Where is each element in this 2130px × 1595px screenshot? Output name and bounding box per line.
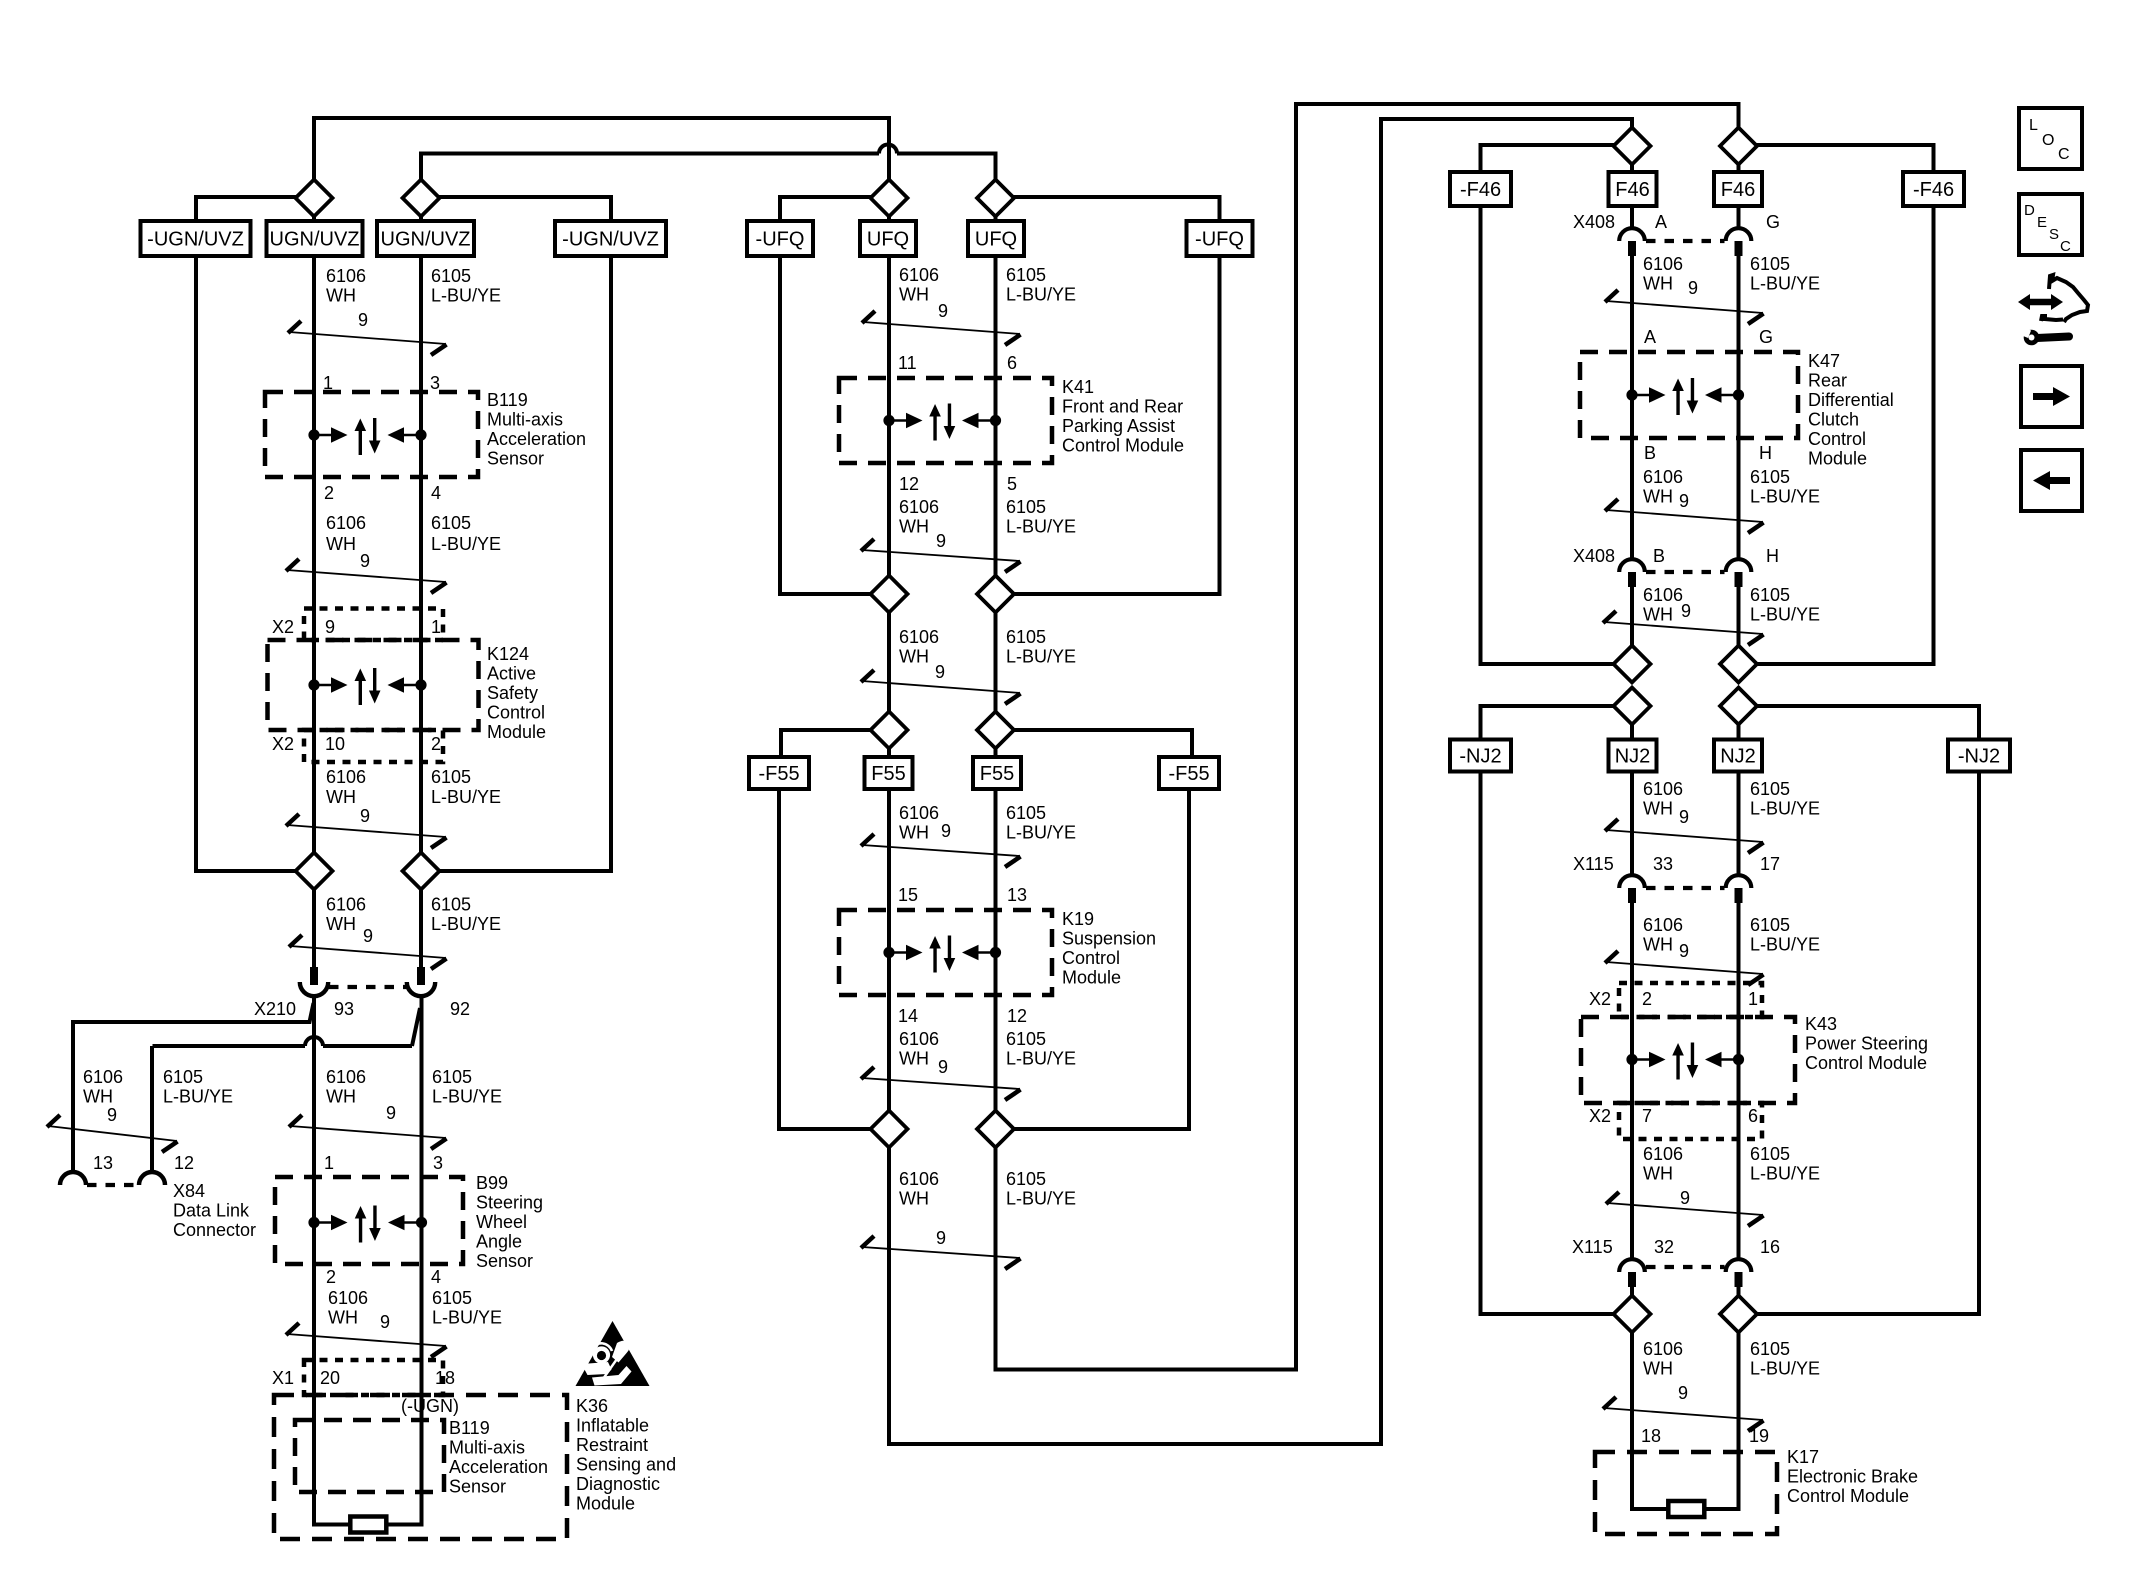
svg-text:12: 12 xyxy=(899,474,919,494)
loop wire -F46 left to diamond xyxy=(1481,206,1616,664)
svg-text:Module: Module xyxy=(487,722,546,742)
svg-text:K124: K124 xyxy=(487,644,529,664)
svg-text:A: A xyxy=(1655,212,1667,232)
svg-text:X84: X84 xyxy=(173,1181,205,1201)
svg-text:Control: Control xyxy=(1808,429,1866,449)
svg-text:L-BU/YE: L-BU/YE xyxy=(1750,487,1820,507)
K47 module arrows symbol xyxy=(1626,389,1637,400)
X115 mating dashed line xyxy=(1646,886,1725,890)
svg-text:WH: WH xyxy=(899,517,929,537)
svg-text:17: 17 xyxy=(1760,854,1780,874)
svg-text:Data Link: Data Link xyxy=(173,1201,250,1221)
svg-text:6105: 6105 xyxy=(1006,265,1046,285)
wire X115 to K43 6106 xyxy=(1630,903,1634,985)
svg-text:L-BU/YE: L-BU/YE xyxy=(1006,517,1076,537)
junction diamond 6106 (right bottom) xyxy=(1614,1296,1651,1333)
svg-text:9: 9 xyxy=(1679,941,1689,961)
svg-text:L-BU/YE: L-BU/YE xyxy=(1750,1359,1820,1379)
net tag -UFQ left xyxy=(747,221,813,256)
wire NJ2 to X115 6105 xyxy=(1737,771,1741,875)
svg-text:X115: X115 xyxy=(1573,854,1614,874)
inline connector X115 pin 17 xyxy=(1726,875,1752,888)
svg-text:2: 2 xyxy=(326,1267,336,1287)
net tag NJ2 6105 xyxy=(1714,740,1762,772)
svg-text:Module: Module xyxy=(1062,968,1121,988)
wire X115-2 to diamond 6106 xyxy=(1630,1287,1634,1297)
DESC legend box xyxy=(2019,194,2082,255)
svg-text:Sensor: Sensor xyxy=(487,449,544,469)
svg-text:X2: X2 xyxy=(272,734,294,754)
svg-text:K47: K47 xyxy=(1808,351,1840,371)
svg-text:6106: 6106 xyxy=(899,803,939,823)
svg-text:-F55: -F55 xyxy=(1168,763,1209,785)
connector X2 dotted box (top of K124) xyxy=(304,609,443,641)
svg-text:18: 18 xyxy=(1641,1426,1661,1446)
svg-text:Control Module: Control Module xyxy=(1062,436,1184,456)
svg-text:9: 9 xyxy=(938,301,948,321)
connector X1 dotted box xyxy=(304,1360,443,1395)
twist symbol xyxy=(287,1334,446,1346)
svg-text:9: 9 xyxy=(936,531,946,551)
wire X408-B to diamonds 6106 xyxy=(1630,587,1634,647)
svg-text:L-BU/YE: L-BU/YE xyxy=(1750,799,1820,819)
sensor B119 dashed box xyxy=(265,392,478,477)
svg-text:20: 20 xyxy=(320,1368,340,1388)
sensor B99 dashed box xyxy=(275,1177,463,1264)
svg-text:6105: 6105 xyxy=(1750,467,1790,487)
svg-text:9: 9 xyxy=(1678,1383,1688,1403)
svg-text:12: 12 xyxy=(1007,1006,1027,1026)
svg-text:2: 2 xyxy=(431,734,441,754)
svg-text:Differential: Differential xyxy=(1808,390,1894,410)
svg-text:L-BU/YE: L-BU/YE xyxy=(1006,1189,1076,1209)
svg-text:UGN/UVZ: UGN/UVZ xyxy=(381,229,471,251)
wire through B119 6106 xyxy=(312,394,316,608)
svg-text:-NJ2: -NJ2 xyxy=(1958,746,2000,768)
svg-text:L-BU/YE: L-BU/YE xyxy=(1006,285,1076,305)
svg-text:C: C xyxy=(2060,238,2071,255)
junction diamond 6106 (left top) xyxy=(296,180,333,217)
connector X84 hook pin 13 xyxy=(60,1172,86,1185)
svg-text:X2: X2 xyxy=(272,617,294,637)
svg-text:F55: F55 xyxy=(871,763,905,785)
svg-text:-F46: -F46 xyxy=(1913,179,1954,201)
wire 6106 between diamonds xyxy=(887,611,891,713)
module K17 dashed box xyxy=(1595,1452,1777,1534)
svg-text:-F55: -F55 xyxy=(758,763,799,785)
svg-text:1: 1 xyxy=(1748,989,1758,1009)
wire through B119 6105 xyxy=(419,394,423,608)
wire 6106 vertical to diamond (right top) xyxy=(1630,117,1634,129)
loop wire -UFQ left to diamond xyxy=(780,256,872,594)
svg-text:6105: 6105 xyxy=(432,1288,472,1308)
svg-text:12: 12 xyxy=(174,1153,194,1173)
svg-text:6106: 6106 xyxy=(328,1288,368,1308)
svg-text:4: 4 xyxy=(431,483,441,503)
svg-text:Angle: Angle xyxy=(476,1232,522,1252)
module K47 dashed box xyxy=(1580,352,1798,438)
svg-text:Restraint: Restraint xyxy=(576,1435,648,1455)
svg-text:WH: WH xyxy=(83,1087,113,1107)
wire X408 to K47 region 6106 xyxy=(1630,256,1634,560)
wire 6106 below UFQ xyxy=(887,256,891,578)
svg-text:Control Module: Control Module xyxy=(1805,1053,1927,1073)
wire 6105 L-BU/YE vertical above diamond xyxy=(419,152,423,182)
wire through K124 6106 xyxy=(312,608,316,766)
net tag F46 6105 xyxy=(1714,172,1762,206)
svg-text:Acceleration: Acceleration xyxy=(487,429,586,449)
net tag F46 6106 xyxy=(1609,172,1657,206)
outer loop wire from -UGN/UVZ right xyxy=(438,256,611,871)
wire 6105 to diamond xyxy=(994,747,998,757)
wrench icon xyxy=(2037,337,2069,339)
twist symbol xyxy=(290,946,446,958)
svg-text:3: 3 xyxy=(430,373,440,393)
svg-text:UFQ: UFQ xyxy=(975,229,1017,251)
wire 6106 into K36 xyxy=(314,1362,351,1525)
twist symbol xyxy=(1606,301,1763,313)
svg-text:11: 11 xyxy=(898,353,917,373)
svg-text:L-BU/YE: L-BU/YE xyxy=(1750,605,1820,625)
module K41 dashed box xyxy=(839,378,1052,463)
wire X115 to K43 6105 xyxy=(1737,903,1741,985)
inline connector X408 pin A xyxy=(1619,228,1645,241)
junction diamond 6105 (right top) xyxy=(1720,128,1757,165)
svg-text:WH: WH xyxy=(1643,487,1673,507)
K19 module arrows symbol xyxy=(883,947,894,958)
branch wire to -F46 right xyxy=(1756,145,1934,171)
twist symbol xyxy=(1606,962,1763,974)
inline connector X210 pin 92 xyxy=(417,967,425,985)
svg-text:L-BU/YE: L-BU/YE xyxy=(1750,935,1820,955)
svg-text:Multi-axis: Multi-axis xyxy=(449,1438,525,1458)
svg-text:16: 16 xyxy=(1760,1237,1780,1257)
svg-text:Electronic Brake: Electronic Brake xyxy=(1787,1467,1918,1487)
wire through B99 6106 xyxy=(312,1180,316,1362)
X115 mating dashed line (second) xyxy=(1646,1265,1725,1269)
twist symbol xyxy=(289,332,446,344)
net tag F55 6106 xyxy=(865,757,913,789)
K43 module arrows symbol xyxy=(1626,1054,1637,1065)
svg-text:Power Steering: Power Steering xyxy=(1805,1034,1928,1054)
svg-text:9: 9 xyxy=(107,1105,117,1125)
svg-text:14: 14 xyxy=(898,1006,918,1026)
svg-text:WH: WH xyxy=(899,647,929,667)
svg-text:6106: 6106 xyxy=(326,895,366,915)
wire 6105 routed to right column (inner L path) xyxy=(996,104,1739,1370)
junction diamond 6106 (right, F46 loop) xyxy=(1614,646,1651,683)
svg-text:6106: 6106 xyxy=(899,627,939,647)
svg-text:6105: 6105 xyxy=(1750,915,1790,935)
wire 6106 below F55 xyxy=(887,789,891,1112)
svg-text:6105: 6105 xyxy=(431,895,471,915)
B99 module arrows symbol xyxy=(308,1217,319,1228)
svg-text:Steering: Steering xyxy=(476,1193,543,1213)
wire 6106 below K124 xyxy=(312,762,316,854)
svg-text:6105: 6105 xyxy=(1750,585,1790,605)
svg-text:WH: WH xyxy=(1643,605,1673,625)
junction diamond 6105 (middle top) xyxy=(977,180,1014,217)
svg-text:WH: WH xyxy=(326,1087,356,1107)
wire 6105 between diamonds xyxy=(994,611,998,713)
wire 6106 routed to right column (bottom-left L path) xyxy=(889,119,1632,1444)
svg-text:K41: K41 xyxy=(1062,377,1094,397)
svg-text:Sensing and: Sensing and xyxy=(576,1455,676,1475)
svg-text:(-UGN): (-UGN) xyxy=(401,1396,459,1416)
svg-text:9: 9 xyxy=(1679,491,1689,511)
twist symbol xyxy=(862,1078,1020,1089)
wire 6106 X210 to B99 xyxy=(312,998,316,1180)
svg-text:6105: 6105 xyxy=(1006,1029,1046,1049)
junction diamond 6106 (middle top) xyxy=(871,180,908,217)
svg-text:L-BU/YE: L-BU/YE xyxy=(431,286,501,306)
svg-text:6106: 6106 xyxy=(326,767,366,787)
inline connector X408 pin H xyxy=(1726,559,1752,572)
net tag -F46 left xyxy=(1450,172,1511,206)
branch wire to -F55 right xyxy=(1013,730,1192,757)
svg-text:UFQ: UFQ xyxy=(867,229,909,251)
twist symbol xyxy=(862,845,1020,856)
wire diamond to NJ2 box xyxy=(1630,723,1634,741)
svg-text:6106: 6106 xyxy=(1643,467,1683,487)
next-page arrow box (right arrow) xyxy=(2021,366,2082,427)
svg-text:L-BU/YE: L-BU/YE xyxy=(1750,1164,1820,1184)
svg-text:O: O xyxy=(2042,132,2054,149)
wire 6105 L-BU/YE (box to B119) xyxy=(419,256,423,394)
net tag -UGN/UVZ left xyxy=(141,221,251,256)
net tag UGN/UVZ 6106 xyxy=(267,221,363,256)
svg-text:6105: 6105 xyxy=(1750,1339,1790,1359)
K17 termination resistor xyxy=(1668,1501,1704,1517)
svg-text:6106: 6106 xyxy=(326,1067,366,1087)
wire 6105 below diamond to X210 xyxy=(419,888,423,969)
junction diamond 6106 (right, NJ2 row) xyxy=(1614,688,1651,725)
svg-text:K19: K19 xyxy=(1062,909,1094,929)
net tag -NJ2 right xyxy=(1948,740,2010,772)
svg-text:Module: Module xyxy=(1808,449,1867,469)
svg-text:9: 9 xyxy=(941,821,951,841)
svg-text:X408: X408 xyxy=(1573,212,1615,232)
svg-text:K36: K36 xyxy=(576,1396,608,1416)
svg-text:Sensor: Sensor xyxy=(449,1477,506,1497)
net tag -UGN/UVZ right xyxy=(555,221,666,256)
svg-text:L-BU/YE: L-BU/YE xyxy=(431,787,501,807)
K124 module arrows symbol xyxy=(308,679,319,690)
svg-text:9: 9 xyxy=(1681,601,1691,621)
branch wire to -UGN/UVZ left xyxy=(196,197,297,222)
svg-text:6106: 6106 xyxy=(1643,585,1683,605)
svg-text:33: 33 xyxy=(1653,854,1673,874)
wire through B99 6105 xyxy=(420,1180,424,1362)
svg-text:13: 13 xyxy=(1007,885,1027,905)
inline connector X115 pin 32 xyxy=(1619,1259,1645,1272)
wire 6105 vertical to diamond (right top) xyxy=(1737,102,1741,129)
wire 6106 WH vertical above diamond xyxy=(312,116,316,181)
wire to UGN/UVZ box xyxy=(312,215,316,224)
svg-text:6105: 6105 xyxy=(1750,254,1790,274)
svg-text:WH: WH xyxy=(899,285,929,305)
net tag -NJ2 left xyxy=(1450,740,1511,772)
svg-text:9: 9 xyxy=(380,1312,390,1332)
svg-text:L-BU/YE: L-BU/YE xyxy=(1006,647,1076,667)
prev-page arrow box (left arrow) xyxy=(2021,450,2082,511)
wire through K43 6106 xyxy=(1630,983,1634,1139)
svg-text:6106: 6106 xyxy=(1643,779,1683,799)
svg-text:L-BU/YE: L-BU/YE xyxy=(431,914,501,934)
car direction icon with double arrow xyxy=(2027,299,2054,306)
wire to UFQ box 2 xyxy=(994,215,998,224)
X408 mating dashed line xyxy=(1646,239,1725,243)
svg-text:6105: 6105 xyxy=(432,1067,472,1087)
twist symbol xyxy=(1606,830,1763,842)
svg-text:9: 9 xyxy=(325,617,335,637)
net tag UFQ 6106 xyxy=(860,221,916,256)
inline connector X408 pin B xyxy=(1619,559,1645,572)
tap wire 6106 to X84 pin 13 xyxy=(73,1003,314,1172)
branch wire to -UFQ right xyxy=(1013,197,1220,222)
svg-text:Wheel: Wheel xyxy=(476,1212,527,1232)
twist symbol (X84 taps) xyxy=(48,1126,177,1141)
svg-text:X408: X408 xyxy=(1573,546,1615,566)
svg-text:B: B xyxy=(1644,443,1656,463)
junction diamond 6105 (right, NJ2 row) xyxy=(1720,688,1757,725)
wire to UGN/UVZ box 2 xyxy=(419,215,423,224)
branch wire to -F55 left xyxy=(781,730,872,757)
module K43 dashed box xyxy=(1581,1017,1795,1103)
junction diamond 6106 (right top) xyxy=(1614,128,1651,165)
svg-text:X1: X1 xyxy=(272,1368,294,1388)
svg-text:Module: Module xyxy=(576,1494,635,1514)
svg-text:32: 32 xyxy=(1654,1237,1674,1257)
svg-text:6105: 6105 xyxy=(431,266,471,286)
svg-text:X210: X210 xyxy=(254,999,296,1019)
svg-text:H: H xyxy=(1766,546,1779,566)
svg-text:WH: WH xyxy=(326,534,356,554)
junction diamond 6106 (left mid) xyxy=(296,853,333,890)
svg-text:L-BU/YE: L-BU/YE xyxy=(432,1087,502,1107)
svg-text:Rear: Rear xyxy=(1808,371,1847,391)
wire to F46 box xyxy=(1630,163,1634,173)
svg-text:Diagnostic: Diagnostic xyxy=(576,1474,660,1494)
svg-text:L-BU/YE: L-BU/YE xyxy=(1006,1049,1076,1069)
svg-text:X2: X2 xyxy=(1589,1106,1611,1126)
svg-text:2: 2 xyxy=(324,483,334,503)
LOC legend box xyxy=(2019,108,2082,169)
junction diamond 6106 (middle, F55 row) xyxy=(871,712,908,749)
svg-text:6106: 6106 xyxy=(1643,254,1683,274)
inline connector X210 pin 93 xyxy=(310,967,318,985)
svg-text:2: 2 xyxy=(1642,989,1652,1009)
svg-text:-NJ2: -NJ2 xyxy=(1459,746,1501,768)
svg-text:9: 9 xyxy=(358,310,368,330)
inline connector X115 pin 33 xyxy=(1619,875,1645,888)
svg-text:5: 5 xyxy=(1007,474,1017,494)
module K36 dashed box (Inflatable Restraint) xyxy=(274,1395,567,1539)
junction diamond 6105 (middle bottom) xyxy=(977,1111,1014,1148)
net tag F55 6105 xyxy=(973,757,1021,789)
wire X115-2 to diamond 6105 xyxy=(1737,1287,1741,1297)
svg-text:9: 9 xyxy=(936,1228,946,1248)
svg-text:Suspension: Suspension xyxy=(1062,929,1156,949)
wire 6106 WH (box to B119) xyxy=(312,256,316,394)
net tag NJ2 6106 xyxy=(1609,740,1657,772)
svg-text:Active: Active xyxy=(487,664,536,684)
svg-text:6105: 6105 xyxy=(163,1067,203,1087)
svg-text:-UFQ: -UFQ xyxy=(756,229,805,251)
tap wire 6105 to X84 pin 12 with hop over 6106 xyxy=(412,1008,420,1046)
branch wire to -UGN/UVZ right xyxy=(438,197,611,222)
twist symbol xyxy=(290,1126,446,1138)
svg-text:Parking Assist: Parking Assist xyxy=(1062,416,1175,436)
svg-text:Sensor: Sensor xyxy=(476,1251,533,1271)
airbag warning triangle xyxy=(576,1321,650,1386)
svg-text:6106: 6106 xyxy=(899,265,939,285)
svg-text:NJ2: NJ2 xyxy=(1720,746,1756,768)
svg-text:H: H xyxy=(1759,443,1772,463)
svg-text:6105: 6105 xyxy=(1006,803,1046,823)
svg-text:Connector: Connector xyxy=(173,1220,256,1240)
wire 6106 vertical from top corner xyxy=(887,116,891,181)
svg-text:Safety: Safety xyxy=(487,683,538,703)
twist symbol xyxy=(1604,622,1763,634)
loop wire -F55 right to diamond xyxy=(1013,789,1189,1129)
svg-text:9: 9 xyxy=(386,1103,396,1123)
svg-text:WH: WH xyxy=(1643,1164,1673,1184)
svg-text:L-BU/YE: L-BU/YE xyxy=(163,1087,233,1107)
module K124 dashed box xyxy=(268,640,479,730)
wire F46 to X408 xyxy=(1630,206,1634,228)
svg-text:6106: 6106 xyxy=(1643,1339,1683,1359)
svg-text:4: 4 xyxy=(431,1267,441,1287)
net tag -F55 left xyxy=(749,757,809,789)
svg-text:10: 10 xyxy=(325,734,345,754)
svg-text:A: A xyxy=(1644,327,1656,347)
branch wire to -NJ2 left xyxy=(1481,706,1616,740)
svg-text:G: G xyxy=(1759,327,1773,347)
X408 mating dashed line (B/H) xyxy=(1646,570,1725,574)
twist symbol xyxy=(287,825,446,837)
svg-text:K17: K17 xyxy=(1787,1447,1819,1467)
wire 6105 L-BU/YE top bus (left to middle) with hop xyxy=(421,152,879,156)
svg-text:1: 1 xyxy=(431,617,441,637)
svg-text:6: 6 xyxy=(1007,353,1017,373)
svg-text:15: 15 xyxy=(898,885,918,905)
svg-text:WH: WH xyxy=(1643,799,1673,819)
wire K43 to X115-2 6105 xyxy=(1737,1139,1741,1259)
twist symbol xyxy=(863,322,1020,334)
twist symbol xyxy=(1604,1408,1763,1420)
branch wire to -NJ2 right xyxy=(1756,706,1979,740)
wire NJ2 to X115 6106 xyxy=(1630,771,1634,875)
svg-text:9: 9 xyxy=(363,926,373,946)
module K19 dashed box xyxy=(839,910,1052,995)
svg-text:D: D xyxy=(2024,202,2035,219)
svg-text:WH: WH xyxy=(328,1308,358,1328)
branch wire to -F46 left xyxy=(1481,145,1616,171)
wire diamond to K17 6106 xyxy=(1632,1331,1668,1509)
twist symbol xyxy=(1606,510,1763,522)
svg-text:-UGN/UVZ: -UGN/UVZ xyxy=(562,229,659,251)
svg-text:9: 9 xyxy=(938,1057,948,1077)
B119 module arrows symbol xyxy=(308,429,319,440)
svg-text:Control: Control xyxy=(1062,948,1120,968)
wire 6106 WH top bus (left to middle) xyxy=(314,116,888,120)
svg-text:X115: X115 xyxy=(1572,1237,1613,1257)
twist symbol xyxy=(862,1247,1020,1258)
svg-text:L-BU/YE: L-BU/YE xyxy=(1750,274,1820,294)
wire 6106 below diamond to X210 xyxy=(312,888,316,969)
outer loop wire from -UGN/UVZ left xyxy=(196,256,297,871)
